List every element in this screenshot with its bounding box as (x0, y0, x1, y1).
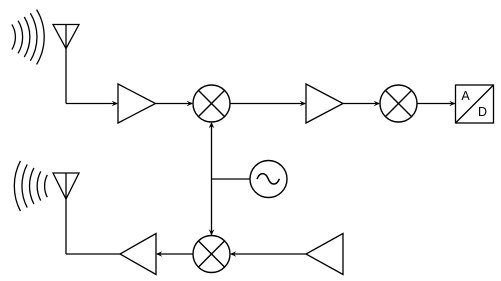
wire: to LNA input (66, 103, 117, 105)
mixer M2 (380, 85, 417, 122)
wavefront arcs radiating left (bottom antenna) (14, 161, 47, 211)
arrowhead into amplifier U1 (112, 101, 118, 107)
wire: LO bus vertical (211, 123, 213, 235)
arrowhead into mixer M1 (187, 101, 193, 107)
wire: M1 output to amplifier U2 (230, 103, 305, 105)
transmit antenna ANT2 (53, 173, 79, 199)
arrowhead into mixer M3 from driver (230, 251, 236, 257)
arrowhead into mixer M2 (374, 101, 380, 107)
wire: antenna ANT2 feed down (65, 199, 67, 254)
wire: mixer M3 to U4 (157, 253, 193, 255)
wire: M2 output to A/D converter (417, 103, 455, 105)
svg-text:A: A (461, 89, 470, 103)
arrowhead into amplifier U4 (156, 251, 162, 257)
amplifier U1 (LNA) (118, 84, 156, 123)
wire: to PA output (66, 253, 120, 255)
wire: driver amp U5 to mixer M3 (231, 253, 306, 255)
arrowhead up into mixer M1 (LO feed) (209, 122, 215, 128)
arrowhead into amplifier U2 (300, 101, 306, 107)
wire: LO branch to oscillator (212, 178, 251, 180)
wire: U2 output to mixer M2 (343, 103, 379, 105)
amplifier U5 (driver, points left) (306, 234, 343, 275)
mixer M3 (193, 236, 230, 273)
receive antenna ANT1 (53, 25, 79, 49)
mixer M1 (193, 85, 230, 122)
wire: antenna ANT1 feed down (65, 49, 67, 104)
arrowhead down into mixer M3 (LO feed) (209, 229, 215, 235)
arrowhead into A/D converter (449, 101, 455, 107)
amplifier U2 (IF amp) (306, 84, 343, 123)
A/D converter U3 (456, 85, 494, 123)
local oscillator OSC1 (250, 161, 287, 198)
wire: U1 output to mixer M1 (156, 103, 193, 105)
amplifier U4 (PA, points left) (120, 234, 156, 275)
svg-text:D: D (478, 105, 487, 119)
incoming RF wavefront arcs (top antenna) (12, 10, 44, 65)
